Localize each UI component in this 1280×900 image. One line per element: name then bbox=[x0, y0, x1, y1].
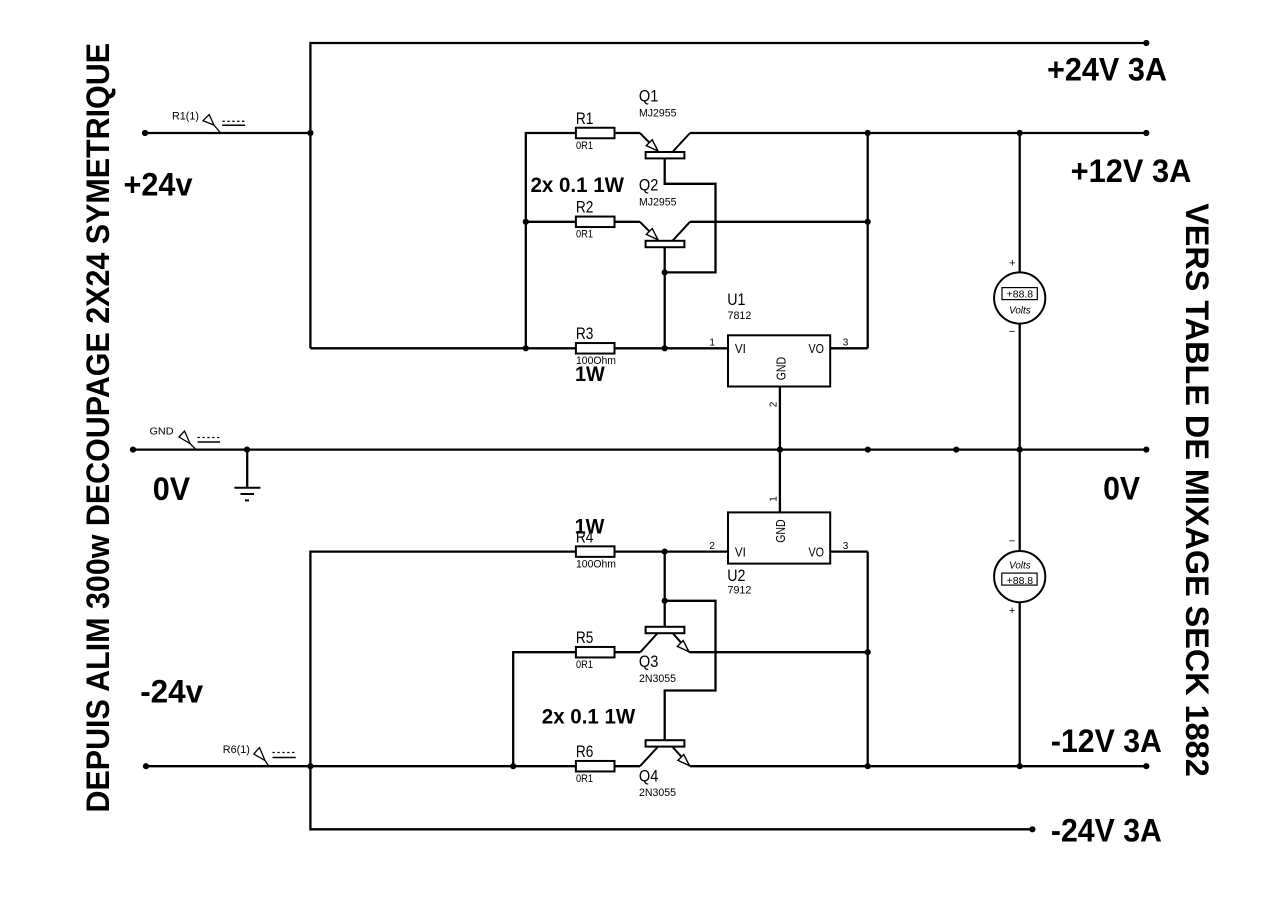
svg-text:R6(1): R6(1) bbox=[223, 744, 250, 756]
svg-text:VO: VO bbox=[809, 341, 825, 356]
svg-text:−: − bbox=[1009, 536, 1015, 548]
svg-text:1: 1 bbox=[709, 338, 715, 349]
svg-text:VERS TABLE DE MIXAGE SECK 1882: VERS TABLE DE MIXAGE SECK 1882 bbox=[1179, 203, 1215, 777]
svg-text:+: + bbox=[1009, 605, 1015, 617]
svg-text:-24v: -24v bbox=[140, 672, 204, 709]
svg-text:Volts: Volts bbox=[1009, 306, 1031, 317]
svg-text:+: + bbox=[1009, 258, 1015, 270]
svg-text:1: 1 bbox=[769, 496, 780, 502]
svg-text:VO: VO bbox=[809, 545, 825, 560]
svg-text:2x 0.1 1W: 2x 0.1 1W bbox=[542, 704, 636, 728]
svg-text:-12V 3A: -12V 3A bbox=[1051, 722, 1162, 759]
svg-text:R3: R3 bbox=[576, 325, 594, 343]
svg-text:GND: GND bbox=[773, 519, 788, 543]
svg-text:0R1: 0R1 bbox=[576, 773, 593, 785]
svg-text:0R1: 0R1 bbox=[576, 659, 593, 671]
svg-text:Q1: Q1 bbox=[639, 88, 659, 106]
svg-text:0R1: 0R1 bbox=[576, 140, 593, 152]
svg-text:+88.8: +88.8 bbox=[1007, 289, 1034, 300]
svg-text:Q4: Q4 bbox=[639, 768, 659, 786]
svg-text:MJ2955: MJ2955 bbox=[639, 196, 677, 208]
svg-text:Q2: Q2 bbox=[639, 176, 659, 194]
svg-text:GND: GND bbox=[150, 426, 174, 438]
svg-text:U2: U2 bbox=[727, 567, 745, 585]
svg-text:2x 0.1 1W: 2x 0.1 1W bbox=[531, 173, 625, 197]
svg-text:DEPUIS ALIM 300w DECOUPAGE 2X2: DEPUIS ALIM 300w DECOUPAGE 2X24 SYMETRIQ… bbox=[80, 43, 116, 813]
svg-text:100Ohm: 100Ohm bbox=[576, 558, 616, 570]
svg-text:MJ2955: MJ2955 bbox=[639, 108, 677, 120]
svg-text:Q3: Q3 bbox=[639, 653, 659, 671]
svg-text:2: 2 bbox=[709, 541, 715, 552]
svg-text:-24V 3A: -24V 3A bbox=[1051, 812, 1162, 849]
svg-text:+24V 3A: +24V 3A bbox=[1047, 51, 1167, 88]
svg-text:−: − bbox=[1009, 326, 1015, 338]
svg-text:GND: GND bbox=[773, 357, 788, 381]
svg-text:R1(1): R1(1) bbox=[172, 110, 199, 122]
svg-text:R1: R1 bbox=[576, 110, 594, 128]
svg-text:+12V 3A: +12V 3A bbox=[1071, 152, 1192, 189]
svg-text:+88.8: +88.8 bbox=[1007, 576, 1034, 587]
svg-text:Volts: Volts bbox=[1009, 560, 1031, 571]
svg-text:100Ohm: 100Ohm bbox=[576, 355, 616, 367]
svg-text:0V: 0V bbox=[1103, 470, 1140, 507]
svg-text:VI: VI bbox=[735, 341, 746, 356]
svg-text:2N3055: 2N3055 bbox=[639, 673, 676, 685]
svg-text:7812: 7812 bbox=[728, 310, 752, 322]
svg-text:R2: R2 bbox=[576, 199, 594, 217]
svg-text:0V: 0V bbox=[153, 470, 191, 507]
svg-text:R4: R4 bbox=[576, 528, 594, 546]
svg-text:0R1: 0R1 bbox=[576, 229, 593, 241]
svg-text:R6: R6 bbox=[576, 743, 594, 761]
svg-text:3: 3 bbox=[843, 541, 849, 552]
svg-text:+24v: +24v bbox=[124, 166, 194, 203]
svg-text:3: 3 bbox=[843, 338, 849, 349]
svg-text:2: 2 bbox=[769, 401, 780, 407]
svg-text:U1: U1 bbox=[727, 291, 745, 309]
svg-text:R5: R5 bbox=[576, 629, 594, 647]
svg-text:VI: VI bbox=[735, 545, 746, 560]
svg-text:7912: 7912 bbox=[728, 585, 752, 597]
svg-text:2N3055: 2N3055 bbox=[639, 787, 676, 799]
